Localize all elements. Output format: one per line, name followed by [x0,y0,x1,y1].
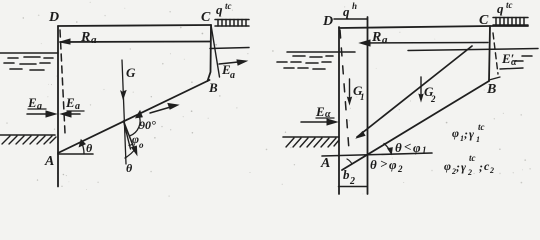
svg-text:1: 1 [422,145,427,155]
svg-text:a: a [37,101,42,112]
C-B vertical [208,25,212,81]
E_a arrow at C [219,62,243,65]
R_a dimension line [60,41,210,44]
svg-text:θ: θ [86,141,93,155]
svg-text:2: 2 [397,164,403,174]
wall left face [338,27,340,194]
svg-text:o: o [139,140,144,150]
90 degree arc [130,114,141,136]
ground hatch left [0,134,55,136]
svg-text:tc: tc [506,0,513,10]
E_a left arrow [27,113,53,115]
svg-text:B: B [486,82,496,97]
svg-text:E: E [65,95,75,110]
R line at P [124,121,131,149]
svg-text:a: a [230,70,235,81]
top surface line [339,26,528,28]
water line right diagram [287,51,355,53]
svg-text:θ: θ [126,161,133,175]
pressure slant at C [211,25,220,77]
phi_0 arc [129,144,133,146]
water dashes [4,57,53,70]
svg-text:h: h [352,1,357,11]
svg-text:>: > [380,156,388,171]
svg-text:tc: tc [469,153,476,163]
svg-text:b: b [343,167,350,182]
surcharge strip left q^tc [215,20,249,27]
wall right face [367,17,369,194]
svg-text:2: 2 [489,166,494,175]
R_a line right [362,42,488,45]
C-B line right diagram [489,26,490,81]
G2 arrow [420,77,422,95]
svg-text:γ: γ [469,127,474,141]
svg-text:1: 1 [476,135,480,144]
normal line at P [124,121,136,152]
svg-text:φ: φ [132,132,139,146]
svg-text:;: ; [456,160,460,174]
svg-text:A: A [320,156,330,171]
bottom tick at B [489,77,500,80]
dashed pressure line at C [493,33,498,74]
R_a arrowhead [60,39,70,44]
svg-text:α: α [325,109,331,120]
svg-text:2: 2 [349,176,355,187]
svg-text:E: E [27,95,37,110]
surcharge strip right q^tc [493,18,528,26]
svg-text:a: a [382,34,388,46]
svg-text:a: a [75,101,80,112]
b2 dimension line [339,186,367,188]
svg-text:α: α [511,57,517,68]
svg-text:2: 2 [430,94,436,104]
svg-text:E: E [315,104,325,119]
svg-text:1: 1 [360,92,365,102]
theta arc bottom [125,150,135,158]
svg-text:γ: γ [461,160,466,174]
theta<phi1 arc [384,144,390,152]
svg-text:θ: θ [370,157,377,172]
svg-text:90°: 90° [139,118,156,132]
svg-text:D: D [322,14,333,29]
theta arc at A [82,143,85,155]
dashed line from D [60,30,65,133]
slip line A-B [58,80,210,153]
svg-text:B: B [208,80,218,95]
svg-text:tc: tc [225,1,232,11]
svg-text:R: R [80,30,90,45]
svg-text:;: ; [479,160,483,174]
G1 arrow [349,79,351,98]
svg-text:<: < [404,139,411,154]
E'a underline [500,68,523,69]
svg-text:φ: φ [389,157,397,172]
dashed centerline [340,30,349,150]
bottom ground line [322,153,432,156]
top surface line D-C [58,25,211,26]
svg-text:φ: φ [413,140,421,155]
svg-text:R: R [371,30,381,45]
svg-text:q: q [216,2,223,17]
q^h line [334,18,367,20]
svg-text:q: q [497,1,504,16]
upper slip line [357,46,472,137]
ground hatch right diagram [283,136,339,138]
E_a right arrow [64,113,80,115]
right ground line [210,48,249,49]
svg-text:;: ; [464,127,468,141]
svg-text:φ: φ [444,159,451,173]
E_a right underline [67,110,84,112]
water line left [0,52,58,54]
lower slip line [342,81,489,170]
svg-text:A: A [44,154,54,169]
G arrow + line of action [122,60,126,164]
small theta arc at foundation [347,159,352,164]
svg-text:D: D [48,10,59,25]
svg-text:G: G [126,65,136,80]
svg-text:C: C [201,10,211,25]
direction arrow on AB [150,106,174,113]
horizontal at A [58,153,93,155]
svg-text:a: a [91,34,97,46]
svg-text:C: C [479,13,489,28]
svg-text:φ: φ [452,126,459,140]
svg-text:2: 2 [467,168,472,177]
E_a left underline [28,108,46,110]
svg-text:q: q [343,4,350,19]
wall left diagram [57,26,59,187]
svg-text:θ: θ [395,140,402,155]
E_alpha arrow [301,121,334,123]
right-side surface line [408,49,538,51]
svg-text:tc: tc [478,122,485,132]
